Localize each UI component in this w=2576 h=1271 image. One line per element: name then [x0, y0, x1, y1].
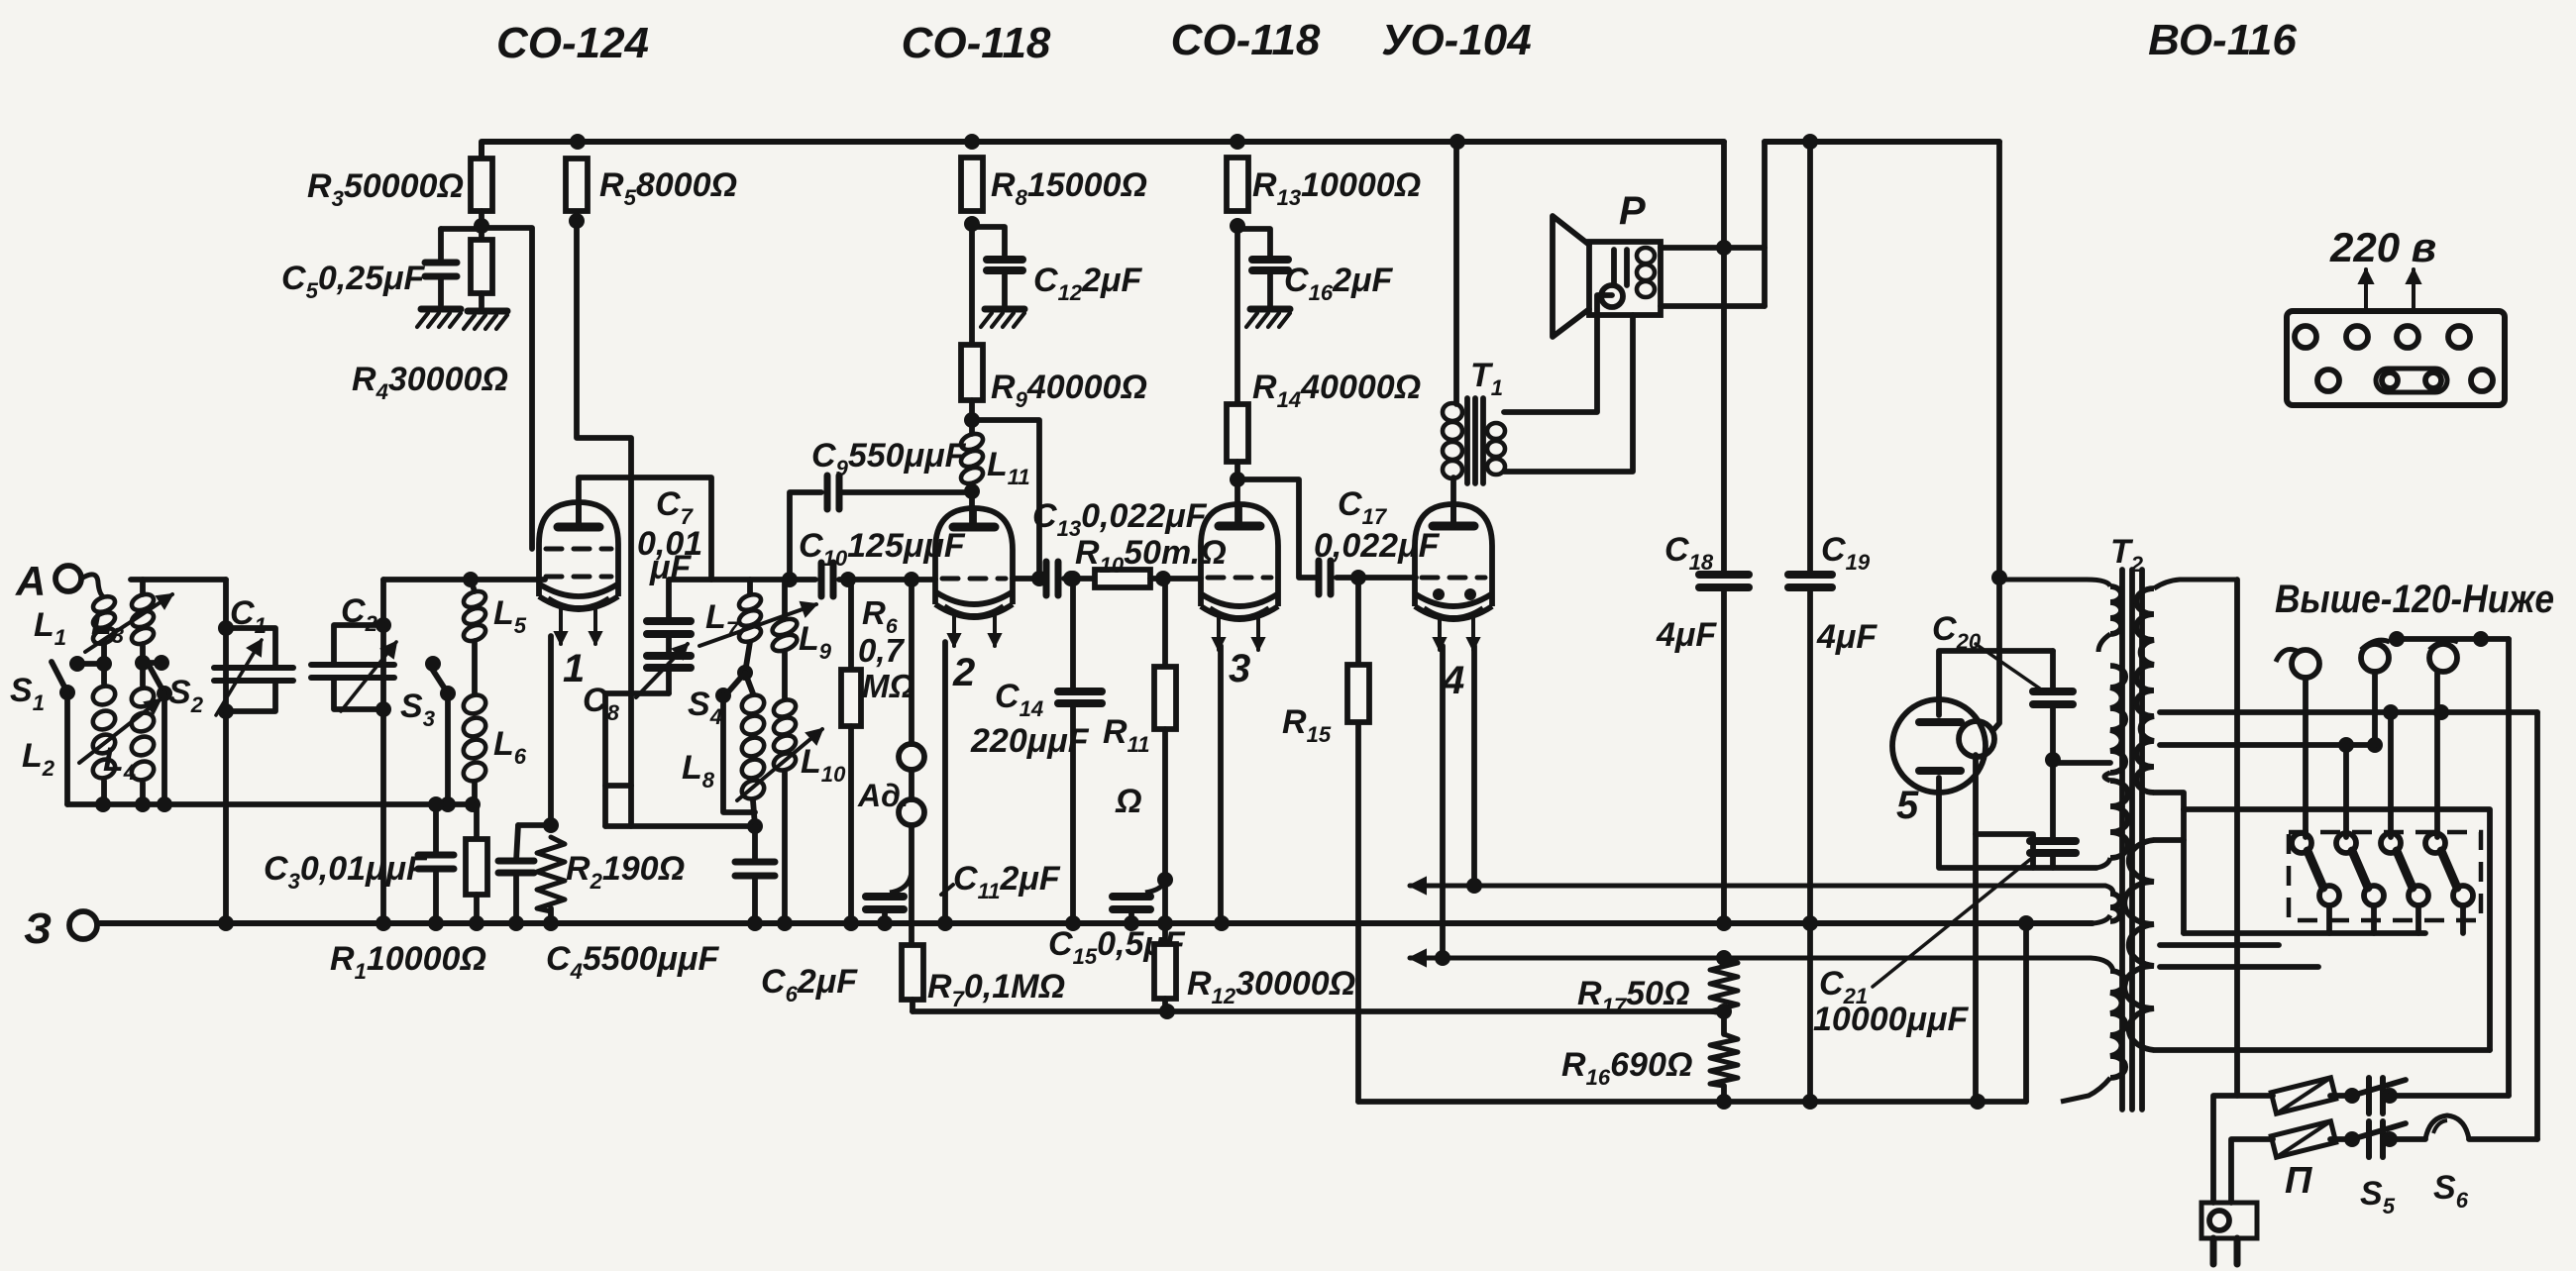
resistor R6: [840, 572, 856, 587]
wire rectifier cathode down: [1973, 755, 1979, 1102]
transformer T1: [1443, 403, 1462, 421]
arrow tuning L1-L3: [85, 594, 172, 652]
wire grid line oscillator: [670, 577, 815, 583]
wire link4 up: [2434, 672, 2440, 837]
capacitor C12: [972, 227, 1005, 260]
wire T2 primary right: [2234, 580, 2240, 1096]
inductor L11: [969, 420, 975, 434]
capacitor C13: [1043, 562, 1050, 595]
svg-text:З: З: [24, 904, 52, 953]
svg-text:Р: Р: [1619, 189, 1646, 233]
resistor R11: [1162, 579, 1168, 667]
wire RW1 bottom: [2154, 793, 2184, 809]
svg-text:C122μF: C122μF: [1033, 262, 1143, 305]
svg-text:5: 5: [1896, 784, 1919, 827]
wire B+ bus: [482, 142, 1724, 159]
inductor L8: [745, 673, 753, 693]
outlet panel 220v: [2287, 311, 2505, 405]
capacitor C20: [2050, 651, 2056, 691]
svg-text:220μμF: 220μμF: [970, 722, 1090, 760]
svg-text:СО-118: СО-118: [902, 19, 1051, 67]
ground under R4: [468, 308, 507, 315]
inductor L4: [129, 685, 157, 709]
wire lamp1 down: [2303, 678, 2308, 837]
wire L3 top: [140, 580, 146, 594]
capacitor C17: [1316, 561, 1323, 594]
switch S5 pole 1: [2330, 1093, 2352, 1099]
svg-text:4μF: 4μF: [1816, 618, 1878, 656]
wire anode tube2: [969, 491, 975, 527]
capacitor C5: [441, 226, 482, 232]
svg-text:R58000Ω: R58000Ω: [599, 166, 737, 210]
wire grid tube1 feed: [482, 228, 532, 549]
wire tube5 bottom box: [1939, 778, 2096, 868]
svg-text:Выше-120-Ниже: Выше-120-Ниже: [2275, 578, 2554, 621]
wire anode tube1: [580, 477, 711, 580]
wire L1-S1-L2 junction: [101, 644, 107, 684]
inductor L6: [461, 691, 488, 716]
inductor L9: [782, 580, 788, 619]
inductor L3: [130, 591, 157, 613]
switch S1: [59, 685, 75, 700]
T2 winding RW1: [2136, 588, 2154, 793]
capacitor C18: [1721, 142, 1727, 575]
selector link 3: [2381, 833, 2401, 853]
resistor R1: [474, 804, 480, 839]
resistor R5: [570, 134, 586, 150]
arrow tuning L8-L10: [737, 729, 822, 800]
arrow cathode tube2 right: [993, 614, 997, 646]
T2 winding W5: [2110, 971, 2125, 1078]
fuse P 1: [2271, 1078, 2335, 1113]
wire lamp2 down: [2372, 672, 2378, 745]
wire anode tube3: [1234, 479, 1240, 526]
wire W2-W3 junction: [2104, 773, 2110, 781]
inductor L7: [747, 580, 753, 594]
wire tube2 to C13: [1013, 576, 1040, 582]
wire junction row left: [67, 801, 476, 807]
svg-text:2: 2: [952, 651, 975, 694]
wire lamps top: [2397, 636, 2509, 642]
resistor R12: [1162, 880, 1168, 944]
arrow cathode tube4 right: [1471, 616, 1475, 650]
wire grid-return line: [912, 1008, 1724, 1014]
resistor R16: [1710, 1034, 1738, 1086]
svg-text:R815000Ω: R815000Ω: [991, 166, 1147, 210]
svg-text:220 в: 220 в: [2329, 224, 2436, 270]
wire to T2 winding1: [1999, 580, 2110, 586]
wire rail to B- right: [2023, 923, 2029, 1102]
mains plug: [2201, 1203, 2257, 1238]
svg-text:R1750Ω: R1750Ω: [1577, 975, 1690, 1018]
arrow cathode tube3 left: [1217, 616, 1221, 650]
wire S1 down: [64, 692, 70, 804]
capacitor C4: [516, 825, 518, 861]
resistor R14: [1234, 226, 1240, 404]
capacitor C16: [1237, 229, 1270, 260]
svg-text:R430000Ω: R430000Ω: [352, 361, 508, 404]
tube U2 CO-118: [935, 508, 1013, 604]
wire cathode tube1: [518, 822, 551, 828]
wire bus to T1: [1449, 134, 1465, 150]
wire antenna to L1: [81, 575, 104, 597]
wire selector tap 752: [2160, 742, 2377, 748]
wire L4 bottom: [140, 783, 146, 804]
capacitor C9: [839, 489, 972, 495]
wire cathode tube3: [1218, 646, 1224, 923]
svg-text:ВО-116: ВО-116: [2148, 16, 2297, 64]
selector link 2: [2336, 833, 2356, 853]
selector solid box: [2184, 809, 2490, 1050]
wire R5 screen feed: [577, 221, 631, 826]
fuse P 2: [2271, 1121, 2335, 1157]
svg-text:C162μF: C162μF: [1284, 262, 1394, 305]
svg-text:10000μμF: 10000μμF: [1813, 1001, 1970, 1038]
T2 winding RW2: [2124, 840, 2154, 1050]
node Ad pickup terminals: [904, 572, 919, 587]
T2 winding W1: [2110, 586, 2121, 634]
svg-text:А: А: [15, 558, 46, 604]
resistor R8: [964, 134, 980, 150]
T2 winding W3: [2110, 781, 2128, 858]
svg-text:R70,1МΩ: R70,1МΩ: [927, 968, 1065, 1011]
svg-text:УО-104: УО-104: [1381, 16, 1532, 64]
wire tube4 right lead: [1471, 646, 1477, 886]
ground under C16: [1250, 306, 1290, 313]
arrow cathode tube1 right: [593, 606, 597, 644]
capacitor C7: [666, 580, 672, 621]
svg-text:Ад.: Ад.: [857, 778, 910, 813]
selector dashed box: [2289, 832, 2481, 920]
wire plug to fuse1: [2213, 1096, 2273, 1203]
svg-text:μF: μF: [649, 549, 693, 586]
capacitor C10: [818, 563, 825, 596]
wire C17 to grid tube4: [1337, 575, 1416, 581]
svg-text:R940000Ω: R940000Ω: [991, 369, 1147, 412]
transformer T2 core: [2119, 570, 2125, 1110]
capacitor C1: [223, 580, 229, 923]
svg-text:3: 3: [1229, 647, 1250, 690]
speaker P: [1553, 216, 1589, 337]
wire heater line 2: [1410, 956, 2091, 961]
svg-text:СО-118: СО-118: [1171, 16, 1321, 64]
wire B- line: [1358, 1099, 2026, 1105]
inductor L10: [782, 651, 788, 699]
tube U5 VO-116: [1892, 699, 1986, 793]
ground under C5: [421, 306, 461, 313]
switch S3: [425, 656, 441, 672]
svg-text:C50,25μF: C50,25μF: [281, 260, 426, 303]
svg-text:R350000Ω: R350000Ω: [307, 167, 464, 211]
svg-text:СО-124: СО-124: [496, 19, 649, 67]
resistor R7: [902, 945, 923, 1000]
wire RW2 top: [2154, 837, 2184, 843]
svg-text:R16690Ω: R16690Ω: [1561, 1046, 1692, 1090]
inductor L5: [471, 580, 475, 591]
resistor R9: [969, 224, 975, 345]
wire T1 secondary to voice coil: [1504, 295, 1612, 412]
switch S6 interlock: [2390, 1136, 2425, 1142]
arrow cathode tube3 right: [1256, 616, 1260, 650]
svg-text:4μF: 4μF: [1656, 616, 1717, 654]
wire ground rail: [97, 920, 2093, 926]
tube U4 UO-104: [1415, 504, 1492, 606]
svg-text:0,7: 0,7: [858, 632, 906, 669]
capacitor C14: [1070, 579, 1076, 691]
selector lamp 3: [2429, 644, 2457, 672]
resistor R3: [471, 159, 492, 211]
wire S2 down: [161, 693, 167, 804]
wire screen jog: [602, 693, 608, 826]
svg-text:C9550μμF: C9550μμF: [811, 437, 967, 480]
capacitor C6: [747, 818, 763, 834]
wire L6 bottom: [472, 783, 478, 804]
wire R10 to tube3: [1150, 576, 1201, 582]
arrow tuning L2-L4: [79, 699, 161, 763]
resistor R2: [537, 837, 565, 911]
selector link 4: [2425, 833, 2445, 853]
arrow tuning L7-L9: [699, 604, 816, 646]
resistor R15: [1355, 578, 1361, 1102]
wire selector tap 719: [2160, 709, 2537, 715]
resistor R10: [1095, 570, 1150, 587]
wire S5 to selector: [2390, 1093, 2509, 1099]
arrow mains 1: [2364, 269, 2368, 309]
wire cathode tube2: [942, 642, 948, 923]
capacitor C2: [380, 580, 386, 923]
node A antenna terminal: [55, 566, 81, 591]
arrow cathode tube1 left: [559, 606, 563, 644]
resistor R4: [471, 240, 492, 293]
wire RW2 bottom: [2154, 1047, 2490, 1053]
arrow cathode tube4 left: [1438, 616, 1442, 650]
wire top of L5 box: [383, 577, 545, 583]
switch S5 pole 2: [2330, 1136, 2352, 1142]
wire B+ bus right: [1765, 139, 1999, 145]
tube U3 CO-118: [1201, 504, 1278, 606]
svg-text:0,022μF: 0,022μF: [1314, 527, 1441, 565]
svg-text:R2190Ω: R2190Ω: [566, 850, 685, 894]
wire S3 down: [445, 693, 451, 804]
wire T1 primary to anode: [1450, 477, 1456, 526]
ground under C12: [985, 306, 1024, 313]
svg-text:C112μF: C112μF: [953, 860, 1061, 903]
wire R14 to C17 jog: [1237, 479, 1317, 578]
wire link3 up: [2388, 712, 2394, 837]
wire speaker field bottom: [1661, 303, 1765, 309]
inductor L2: [90, 683, 118, 707]
switch S4: [725, 673, 745, 695]
arrow mains 2: [2412, 269, 2415, 309]
wire tube4 left lead: [1440, 646, 1446, 958]
resistor R13: [1230, 134, 1245, 150]
wire rectifier anode feed: [1992, 578, 1999, 731]
wire heater stub 1: [2160, 942, 2279, 948]
wire heater stub 2: [2160, 964, 2318, 970]
wire C13-R10: [1064, 576, 1095, 582]
wire R9 to grid elbow: [972, 420, 1039, 579]
capacitor C11: [909, 825, 914, 945]
wire plug to fuse2: [2231, 1139, 2273, 1203]
svg-text:МΩ: МΩ: [862, 668, 914, 704]
svg-text:Ω: Ω: [1115, 783, 1142, 820]
wire L3-S2-L4 junction: [140, 644, 146, 686]
wire L5-L6: [472, 641, 478, 693]
capacitor C8: [666, 634, 672, 656]
capacitor C21: [2050, 760, 2056, 841]
resistor R17: [1710, 958, 1738, 1013]
svg-text:C62μF: C62μF: [761, 963, 858, 1006]
selector link 1: [2292, 833, 2311, 853]
T2 winding W4: [2110, 894, 2120, 921]
capacitor C3: [433, 804, 439, 855]
wire R3-R4 junction: [479, 211, 484, 240]
wire heater line 1: [1410, 884, 2105, 889]
wire L2 bottom: [101, 781, 107, 804]
wire grid line tube2: [839, 577, 935, 583]
tube U1 CO-124: [539, 502, 618, 596]
node 3 ground terminal: [69, 911, 97, 939]
svg-text:1: 1: [563, 647, 585, 690]
wire C20 to T2 junction: [2053, 760, 2110, 766]
wire S6 right up: [2469, 1136, 2537, 1142]
wire speaker field top: [1661, 245, 1765, 251]
capacitor C15: [1145, 880, 1165, 893]
T2 winding W2: [2110, 666, 2125, 773]
capacitor C19: [1807, 142, 1813, 575]
wire tube5 top box: [1939, 651, 2053, 715]
wire bus down right: [1996, 142, 2002, 578]
svg-text:П: П: [2285, 1160, 2312, 1202]
selector lamp 1: [2292, 650, 2319, 678]
wire link2 up: [2343, 745, 2349, 837]
arrow cathode tube2 left: [952, 614, 956, 646]
svg-text:R110000Ω: R110000Ω: [330, 940, 486, 984]
switch S2: [157, 686, 172, 701]
selector lamp 2: [2361, 644, 2389, 672]
inductor L1: [91, 593, 118, 615]
